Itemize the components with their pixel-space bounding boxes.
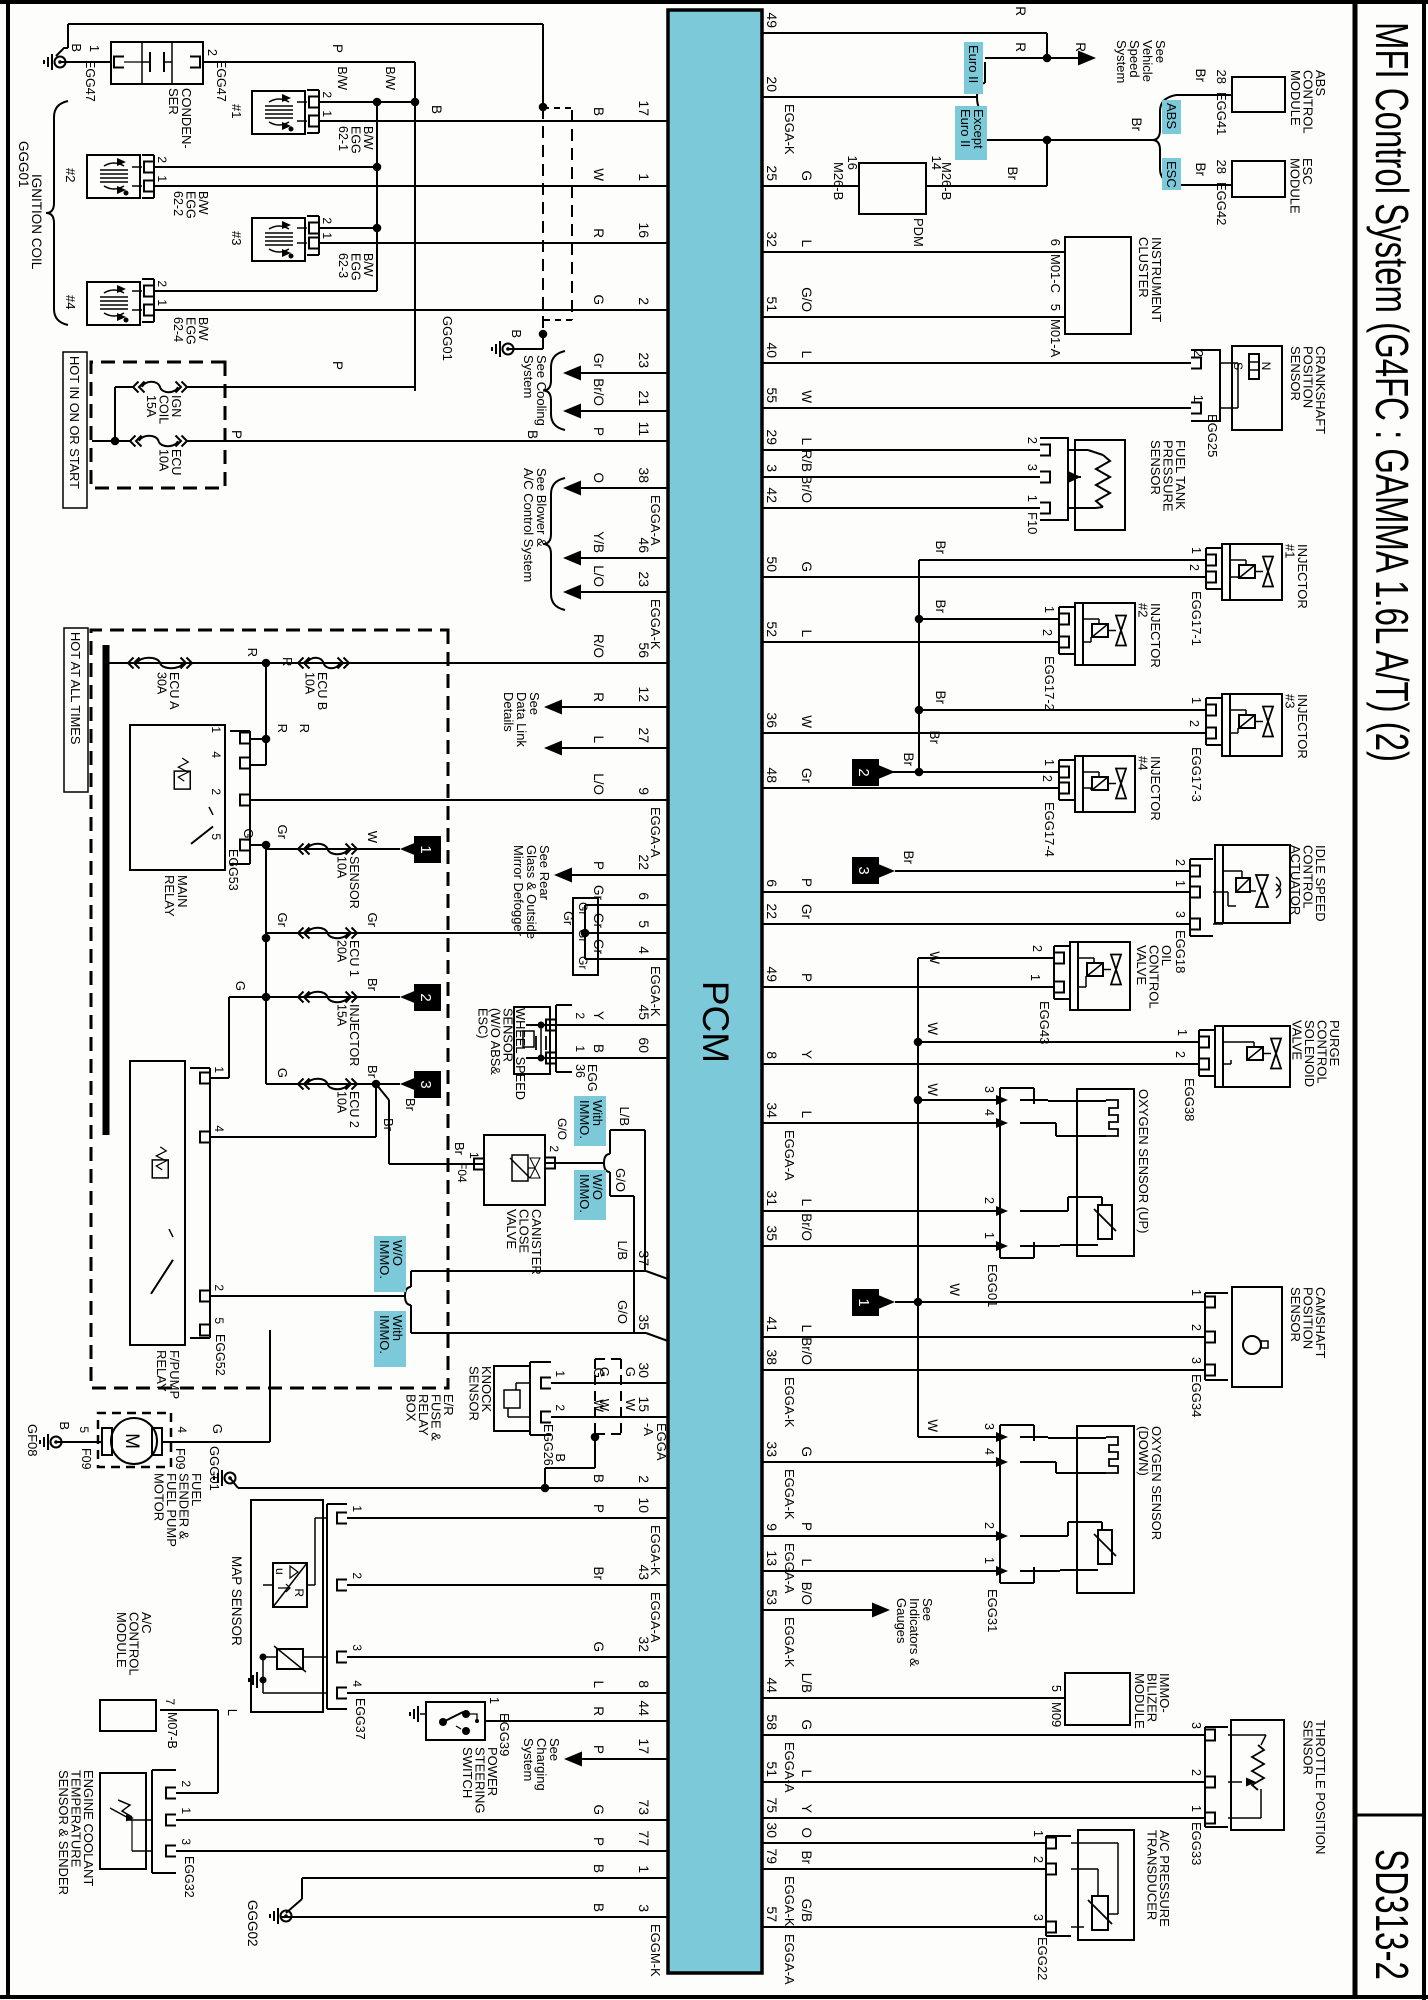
svg-text:15A: 15A xyxy=(144,395,158,418)
svg-text:42: 42 xyxy=(764,487,780,503)
svg-text:IGNITION COIL: IGNITION COIL xyxy=(29,174,44,270)
svg-text:(DOWN): (DOWN) xyxy=(1136,1426,1151,1476)
svg-text:40: 40 xyxy=(764,342,780,358)
svg-text:1: 1 xyxy=(155,299,169,306)
svg-text:3: 3 xyxy=(855,866,872,874)
svg-text:2: 2 xyxy=(636,297,652,305)
svg-text:System: System xyxy=(521,355,536,398)
svg-text:Gr: Gr xyxy=(576,956,590,969)
svg-text:G/O: G/O xyxy=(613,1168,628,1192)
svg-text:36: 36 xyxy=(573,1064,587,1078)
svg-text:B/W: B/W xyxy=(335,66,349,90)
svg-text:W: W xyxy=(597,1399,612,1412)
svg-text:28: 28 xyxy=(1214,70,1229,84)
svg-text:33: 33 xyxy=(764,1441,780,1457)
svg-text:Br: Br xyxy=(1129,118,1144,132)
svg-text:BOX: BOX xyxy=(404,1394,419,1422)
svg-text:SENSOR & SENDER: SENSOR & SENDER xyxy=(56,1770,71,1895)
svg-text:VALVE: VALVE xyxy=(1290,1020,1305,1060)
svg-text:L/B: L/B xyxy=(799,1673,814,1693)
svg-text:O: O xyxy=(591,472,606,483)
svg-text:G: G xyxy=(275,1068,290,1078)
svg-text:P: P xyxy=(330,44,345,53)
svg-text:#2: #2 xyxy=(63,168,78,182)
svg-text:EGGA-K: EGGA-K xyxy=(648,599,663,650)
svg-text:R: R xyxy=(280,657,295,666)
svg-text:5: 5 xyxy=(212,1317,226,1324)
svg-text:53: 53 xyxy=(764,1589,780,1605)
svg-text:W: W xyxy=(925,1419,940,1432)
svg-text:Br: Br xyxy=(452,1142,467,1156)
svg-text:2: 2 xyxy=(1191,350,1206,357)
svg-text:2: 2 xyxy=(155,156,169,163)
svg-text:L/B: L/B xyxy=(617,1106,632,1126)
svg-text:EGG34: EGG34 xyxy=(1189,1374,1204,1417)
svg-text:1: 1 xyxy=(1025,495,1040,502)
svg-text:L: L xyxy=(799,239,814,247)
svg-text:EGG17-4: EGG17-4 xyxy=(1042,802,1057,857)
svg-text:51: 51 xyxy=(764,1761,780,1777)
svg-text:EGGA-A: EGGA-A xyxy=(782,1543,797,1594)
svg-text:P: P xyxy=(799,878,814,887)
svg-text:M26-B: M26-B xyxy=(939,162,954,200)
svg-text:L: L xyxy=(799,629,814,637)
svg-text:Gr: Gr xyxy=(799,768,814,784)
svg-text:1: 1 xyxy=(1042,759,1056,766)
svg-text:P: P xyxy=(591,1837,606,1846)
svg-text:7: 7 xyxy=(163,1698,177,1705)
svg-text:P: P xyxy=(799,1522,814,1531)
svg-text:2: 2 xyxy=(1031,1856,1045,1863)
svg-text:23: 23 xyxy=(636,571,652,587)
svg-text:48: 48 xyxy=(764,767,780,783)
svg-text:ACTUATOR: ACTUATOR xyxy=(1288,845,1303,915)
svg-text:EGG37: EGG37 xyxy=(353,1698,367,1740)
svg-text:2: 2 xyxy=(982,1522,996,1529)
svg-text:B: B xyxy=(69,43,84,52)
svg-text:79: 79 xyxy=(764,1848,780,1864)
svg-text:12: 12 xyxy=(636,686,652,702)
svg-text:3: 3 xyxy=(1025,464,1040,471)
svg-text:28: 28 xyxy=(1214,160,1229,174)
svg-text:EGGA-K: EGGA-K xyxy=(782,104,797,155)
svg-text:Y: Y xyxy=(799,1050,814,1059)
svg-text:5: 5 xyxy=(77,1426,91,1433)
svg-text:22: 22 xyxy=(764,903,780,919)
svg-text:EGG32: EGG32 xyxy=(182,1856,196,1898)
svg-text:W: W xyxy=(799,390,814,403)
svg-text:W: W xyxy=(947,1283,962,1296)
svg-text:-A: -A xyxy=(641,1423,656,1436)
svg-text:Y: Y xyxy=(591,1011,606,1020)
svg-text:Br: Br xyxy=(933,600,948,614)
svg-text:2: 2 xyxy=(320,91,334,98)
svg-text:L: L xyxy=(799,1558,814,1566)
svg-text:#4: #4 xyxy=(63,295,78,309)
svg-text:MODULE: MODULE xyxy=(1132,1673,1147,1729)
svg-text:G: G xyxy=(233,981,248,991)
svg-text:G/O: G/O xyxy=(615,1300,630,1324)
svg-text:#2: #2 xyxy=(1136,603,1151,617)
svg-text:HOT IN ON OR START: HOT IN ON OR START xyxy=(67,356,82,489)
svg-text:B: B xyxy=(509,329,524,338)
svg-text:RELAY: RELAY xyxy=(154,1350,169,1392)
svg-text:EGG41: EGG41 xyxy=(1214,92,1229,135)
svg-text:GGG01: GGG01 xyxy=(16,141,31,188)
svg-text:EGG33: EGG33 xyxy=(1189,1822,1204,1865)
svg-text:1: 1 xyxy=(1031,1830,1045,1837)
svg-text:2: 2 xyxy=(1189,1324,1203,1331)
svg-text:G/B: G/B xyxy=(799,1899,814,1922)
svg-text:Br/O: Br/O xyxy=(799,1337,814,1365)
svg-text:1: 1 xyxy=(1173,880,1187,887)
svg-text:Gr: Gr xyxy=(561,911,575,925)
svg-text:3: 3 xyxy=(350,1644,364,1651)
svg-text:5: 5 xyxy=(209,833,223,840)
svg-text:1: 1 xyxy=(855,1298,872,1306)
svg-text:F09: F09 xyxy=(79,1448,93,1470)
svg-text:1: 1 xyxy=(1191,395,1206,402)
svg-text:Mirror Defogger: Mirror Defogger xyxy=(511,845,526,937)
svg-text:5: 5 xyxy=(1048,304,1063,311)
svg-text:Y: Y xyxy=(799,1804,814,1813)
svg-text:15A: 15A xyxy=(335,1004,349,1027)
svg-text:1: 1 xyxy=(155,175,169,182)
svg-text:Gr: Gr xyxy=(365,913,380,928)
svg-text:PDM: PDM xyxy=(911,218,926,247)
svg-text:1: 1 xyxy=(982,1557,996,1564)
svg-text:2: 2 xyxy=(1187,720,1201,727)
svg-text:1: 1 xyxy=(1175,1029,1189,1036)
svg-text:10A: 10A xyxy=(303,672,317,695)
svg-text:Br: Br xyxy=(365,978,380,992)
svg-text:44: 44 xyxy=(636,1700,652,1716)
svg-text:#4: #4 xyxy=(1136,756,1151,770)
svg-text:2: 2 xyxy=(350,1572,364,1579)
svg-text:46: 46 xyxy=(636,537,652,553)
svg-text:R/B: R/B xyxy=(799,449,814,472)
svg-text:R/O: R/O xyxy=(591,634,606,658)
svg-text:L: L xyxy=(799,1769,814,1777)
svg-text:GGG01: GGG01 xyxy=(207,1446,222,1491)
svg-text:W: W xyxy=(623,1399,638,1412)
svg-text:P: P xyxy=(330,361,345,370)
svg-text:6: 6 xyxy=(764,879,780,887)
svg-text:F09: F09 xyxy=(173,1448,187,1470)
svg-text:W: W xyxy=(365,831,380,844)
svg-text:Br/O: Br/O xyxy=(591,378,606,406)
svg-text:1: 1 xyxy=(209,726,223,733)
svg-text:G: G xyxy=(591,294,606,305)
svg-text:3: 3 xyxy=(982,1423,996,1430)
svg-text:Br: Br xyxy=(365,1065,380,1079)
svg-text:R: R xyxy=(591,228,606,238)
svg-text:EGGA-A: EGGA-A xyxy=(648,807,663,858)
svg-text:PCM: PCM xyxy=(695,981,736,1063)
svg-text:EGG52: EGG52 xyxy=(213,1334,227,1376)
svg-text:EGG42: EGG42 xyxy=(1214,182,1229,225)
svg-text:M01-A: M01-A xyxy=(1048,319,1063,358)
svg-text:MFI Control System (G4FC : GAM: MFI Control System (G4FC : GAMMA 1.6L A/… xyxy=(1366,22,1418,762)
svg-text:EGGA-K: EGGA-K xyxy=(782,1876,797,1927)
svg-text:1: 1 xyxy=(87,45,101,52)
svg-text:34: 34 xyxy=(764,1102,780,1118)
svg-text:R: R xyxy=(1013,6,1028,16)
svg-text:8: 8 xyxy=(764,1051,780,1059)
svg-text:17: 17 xyxy=(636,1738,652,1754)
svg-text:TRANSDUCER: TRANSDUCER xyxy=(1145,1830,1160,1920)
svg-text:2: 2 xyxy=(855,768,872,776)
svg-text:L: L xyxy=(799,350,814,358)
svg-text:A/C Control System: A/C Control System xyxy=(521,468,536,582)
svg-text:B: B xyxy=(429,105,444,114)
svg-text:Gauges: Gauges xyxy=(894,1598,909,1644)
svg-text:8: 8 xyxy=(636,1680,652,1688)
svg-text:Euro II: Euro II xyxy=(958,109,973,147)
svg-text:1: 1 xyxy=(1189,697,1203,704)
svg-text:Br: Br xyxy=(933,541,948,555)
svg-text:Euro II: Euro II xyxy=(966,45,981,83)
svg-text:60: 60 xyxy=(636,1037,652,1053)
svg-text:W: W xyxy=(799,715,814,728)
svg-text:Br/O: Br/O xyxy=(799,1213,814,1241)
svg-text:62-4: 62-4 xyxy=(171,317,185,342)
svg-text:49: 49 xyxy=(764,12,780,28)
svg-text:EGG18: EGG18 xyxy=(1173,930,1188,973)
svg-text:2: 2 xyxy=(205,49,219,56)
svg-text:SD313-2: SD313-2 xyxy=(1366,1849,1418,1980)
svg-text:Gr: Gr xyxy=(576,902,590,915)
svg-text:2: 2 xyxy=(1040,775,1054,782)
svg-text:Gr: Gr xyxy=(591,353,606,369)
svg-text:1: 1 xyxy=(320,110,334,117)
svg-text:P: P xyxy=(591,861,606,870)
svg-text:B: B xyxy=(57,1421,72,1430)
svg-text:EGG26: EGG26 xyxy=(541,1424,555,1466)
svg-text:G: G xyxy=(591,1804,606,1815)
svg-text:43: 43 xyxy=(636,1564,652,1580)
svg-text:EGGM-K: EGGM-K xyxy=(648,1924,663,1977)
svg-text:1: 1 xyxy=(487,1697,501,1704)
svg-text:2: 2 xyxy=(212,1284,226,1291)
svg-text:R: R xyxy=(591,1706,606,1716)
svg-text:B: B xyxy=(591,1903,606,1912)
svg-text:EGGA-A: EGGA-A xyxy=(648,1592,663,1643)
svg-text:75: 75 xyxy=(764,1797,780,1813)
svg-text:2: 2 xyxy=(1173,1051,1187,1058)
svg-text:2: 2 xyxy=(573,1012,587,1019)
svg-text:EGG38: EGG38 xyxy=(1182,1078,1197,1121)
svg-text:29: 29 xyxy=(764,429,780,445)
svg-text:2: 2 xyxy=(553,1404,567,1411)
svg-text:3: 3 xyxy=(1189,1357,1203,1364)
svg-text:2: 2 xyxy=(1189,1769,1203,1776)
svg-text:Gr: Gr xyxy=(241,829,256,844)
svg-text:3: 3 xyxy=(1031,1914,1045,1921)
svg-text:EGG47: EGG47 xyxy=(83,60,97,102)
svg-text:SER: SER xyxy=(166,88,181,115)
svg-text:30A: 30A xyxy=(155,672,169,695)
svg-text:L/B: L/B xyxy=(615,1240,630,1260)
svg-text:IMMO.: IMMO. xyxy=(577,1100,592,1139)
svg-text:38: 38 xyxy=(764,1349,780,1365)
svg-text:10: 10 xyxy=(636,1497,652,1513)
svg-text:1: 1 xyxy=(350,1505,364,1512)
svg-text:2: 2 xyxy=(417,993,434,1001)
svg-text:W: W xyxy=(591,168,606,181)
svg-text:SENSOR: SENSOR xyxy=(467,1366,482,1421)
svg-text:W: W xyxy=(925,1022,940,1035)
svg-text:CLUSTER: CLUSTER xyxy=(1136,237,1151,298)
svg-text:B: B xyxy=(591,1044,606,1053)
svg-text:R: R xyxy=(1073,42,1088,52)
svg-text:EGG47: EGG47 xyxy=(214,60,228,102)
svg-text:62-1: 62-1 xyxy=(336,126,350,151)
svg-text:System: System xyxy=(1114,40,1129,83)
svg-text:G: G xyxy=(799,1446,814,1457)
svg-text:45: 45 xyxy=(636,1004,652,1020)
svg-text:G: G xyxy=(597,1367,612,1377)
svg-text:EGG01: EGG01 xyxy=(985,1264,1000,1307)
svg-text:W: W xyxy=(925,1083,940,1096)
svg-text:22: 22 xyxy=(636,854,652,870)
svg-text:1: 1 xyxy=(553,1370,567,1377)
svg-text:50: 50 xyxy=(764,556,780,572)
svg-text:L: L xyxy=(799,437,814,445)
svg-text:51: 51 xyxy=(764,296,780,312)
svg-text:58: 58 xyxy=(764,1714,780,1730)
svg-text:36: 36 xyxy=(764,712,780,728)
svg-text:EGG17-2: EGG17-2 xyxy=(1042,656,1057,711)
svg-text:20A: 20A xyxy=(335,940,349,963)
svg-text:10A: 10A xyxy=(335,856,349,879)
svg-text:25: 25 xyxy=(764,165,780,181)
svg-text:HOT AT ALL TIMES: HOT AT ALL TIMES xyxy=(68,632,83,744)
svg-text:GGG02: GGG02 xyxy=(245,1900,260,1947)
svg-text:13: 13 xyxy=(764,1550,780,1566)
svg-text:Gr: Gr xyxy=(275,825,290,840)
svg-text:55: 55 xyxy=(764,387,780,403)
svg-text:2: 2 xyxy=(155,280,169,287)
svg-text:35: 35 xyxy=(764,1225,780,1241)
svg-text:P: P xyxy=(799,973,814,982)
svg-text:4: 4 xyxy=(636,946,652,954)
svg-text:20: 20 xyxy=(764,76,780,92)
svg-text:SENSOR: SENSOR xyxy=(1301,1720,1316,1775)
svg-text:Gr: Gr xyxy=(591,939,606,955)
svg-text:4: 4 xyxy=(982,1109,996,1116)
svg-text:G: G xyxy=(210,1424,225,1434)
svg-text:G: G xyxy=(799,1719,814,1730)
svg-text:M01-C: M01-C xyxy=(1048,254,1063,293)
svg-text:4: 4 xyxy=(175,1426,189,1433)
svg-text:Br: Br xyxy=(901,753,916,767)
svg-text:1: 1 xyxy=(179,1807,193,1814)
svg-text:1: 1 xyxy=(636,173,652,181)
svg-text:VALVE: VALVE xyxy=(504,1209,519,1249)
svg-text:EGGA-K: EGGA-K xyxy=(782,1469,797,1520)
svg-text:F04: F04 xyxy=(455,1162,469,1183)
svg-text:52: 52 xyxy=(764,621,780,637)
svg-text:Br: Br xyxy=(1005,167,1020,181)
svg-text:1: 1 xyxy=(1042,606,1056,613)
svg-text:2: 2 xyxy=(1040,629,1054,636)
svg-text:4: 4 xyxy=(982,1448,996,1455)
svg-text:B/O: B/O xyxy=(799,1582,814,1605)
svg-text:P: P xyxy=(591,1504,606,1513)
svg-text:EGGA-K: EGGA-K xyxy=(782,1377,797,1428)
svg-text:6: 6 xyxy=(636,892,652,900)
svg-text:#1: #1 xyxy=(1283,544,1298,558)
svg-text:EGG17-3: EGG17-3 xyxy=(1189,747,1204,802)
svg-text:Details: Details xyxy=(501,692,516,732)
svg-text:3: 3 xyxy=(636,1904,652,1912)
svg-text:GGG01: GGG01 xyxy=(440,316,455,361)
svg-text:O: O xyxy=(799,1827,814,1838)
svg-text:IMMO.: IMMO. xyxy=(377,1240,392,1279)
svg-text:3: 3 xyxy=(417,1080,434,1088)
svg-text:R: R xyxy=(275,724,290,733)
svg-text:SENSOR: SENSOR xyxy=(1288,346,1303,401)
svg-text:2: 2 xyxy=(982,1197,996,1204)
svg-text:EGG31: EGG31 xyxy=(985,1589,1000,1632)
svg-text:Br/O: Br/O xyxy=(799,475,814,503)
svg-text:EGG22: EGG22 xyxy=(1035,1937,1050,1980)
svg-text:2: 2 xyxy=(636,1475,652,1483)
svg-text:4: 4 xyxy=(209,751,223,758)
svg-text:3: 3 xyxy=(764,464,780,472)
svg-text:SWITCH: SWITCH xyxy=(460,1747,475,1798)
svg-text:IMMO.: IMMO. xyxy=(577,1174,592,1213)
svg-text:Br: Br xyxy=(1193,69,1208,83)
svg-text:G/O: G/O xyxy=(799,287,814,312)
svg-text:Br: Br xyxy=(591,1567,606,1581)
svg-text:P: P xyxy=(591,427,606,436)
svg-text:EGGA-A: EGGA-A xyxy=(782,1934,797,1985)
svg-text:32: 32 xyxy=(764,231,780,247)
svg-text:SENSOR: SENSOR xyxy=(1148,440,1163,495)
svg-text:L: L xyxy=(591,735,606,743)
svg-text:VALVE: VALVE xyxy=(1134,945,1149,985)
svg-text:#3: #3 xyxy=(229,231,244,245)
svg-text:EGGA-A: EGGA-A xyxy=(782,1130,797,1181)
svg-text:Gr: Gr xyxy=(799,904,814,920)
svg-text:MODULE: MODULE xyxy=(1288,158,1303,214)
svg-text:3: 3 xyxy=(982,1086,996,1093)
svg-text:RELAY: RELAY xyxy=(162,875,177,917)
svg-text:9: 9 xyxy=(636,787,652,795)
svg-text:R: R xyxy=(297,724,312,733)
svg-text:EGG43: EGG43 xyxy=(1037,1001,1052,1044)
svg-text:3: 3 xyxy=(1173,911,1187,918)
svg-text:1: 1 xyxy=(467,1152,481,1159)
svg-text:1: 1 xyxy=(1189,1289,1203,1296)
svg-text:L: L xyxy=(799,1110,814,1118)
svg-text:MODULE: MODULE xyxy=(1288,70,1303,126)
svg-text:GF08: GF08 xyxy=(25,1424,40,1457)
svg-text:3: 3 xyxy=(1189,1722,1203,1729)
svg-text:62-2: 62-2 xyxy=(171,191,185,216)
svg-text:62-3: 62-3 xyxy=(336,253,350,278)
svg-text:B/W: B/W xyxy=(383,66,397,90)
svg-text:L: L xyxy=(799,1324,814,1332)
svg-text:4: 4 xyxy=(350,1680,364,1687)
svg-text:3: 3 xyxy=(179,1838,193,1845)
svg-text:2: 2 xyxy=(1173,859,1187,866)
svg-text:44: 44 xyxy=(764,1677,780,1693)
svg-text:2: 2 xyxy=(1025,437,1040,444)
svg-text:5: 5 xyxy=(636,920,652,928)
